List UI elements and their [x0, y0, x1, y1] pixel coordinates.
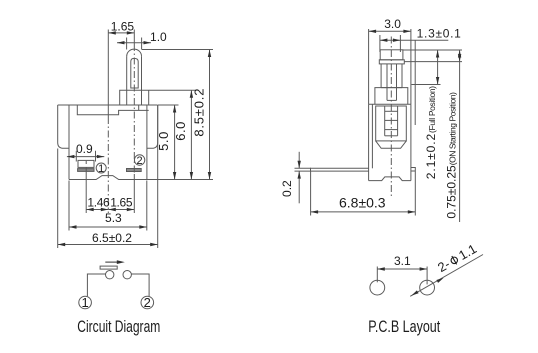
side stem ladder [376, 106, 407, 141]
svg-text:1.3±0.1: 1.3±0.1 [417, 26, 462, 40]
svg-text:1: 1 [81, 295, 88, 310]
svg-text:5.0: 5.0 [156, 131, 171, 151]
svg-text:8.5±0.2: 8.5±0.2 [192, 88, 207, 137]
front body top recess step [77, 105, 148, 115]
svg-text:2-: 2- [435, 256, 453, 275]
leader 2-dia 1.1 [410, 255, 483, 297]
side view body outline [369, 103, 411, 105]
svg-text:Circuit Diagram: Circuit Diagram [77, 318, 160, 336]
front stem collar [120, 90, 149, 105]
svg-text:1.65: 1.65 [111, 20, 135, 34]
dimension 0.75 on starting position [404, 61, 462, 63]
svg-text:6.0: 6.0 [173, 121, 188, 141]
svg-text:6.8±0.3: 6.8±0.3 [339, 195, 386, 211]
circuit contact circle left [106, 271, 114, 279]
svg-text:0.75±0.25(ON Starting Position: 0.75±0.25(ON Starting Position) [445, 92, 459, 219]
svg-text:2: 2 [137, 155, 143, 167]
svg-text:1: 1 [98, 163, 104, 175]
svg-text:1.65: 1.65 [110, 196, 133, 210]
terminal 2 pin [127, 169, 142, 172]
side stem taper [376, 141, 407, 148]
front plunger dome [127, 49, 142, 56]
svg-text:5.3: 5.3 [105, 211, 122, 225]
terminal circle 2 of circuit [141, 296, 154, 309]
terminal 1 centerline [85, 161, 87, 164]
circuit actuation arrow [105, 261, 121, 263]
wire from right contact to terminal 2 [131, 274, 149, 296]
front body bottom edge with center notch [69, 176, 213, 180]
svg-text:0.9: 0.9 [76, 142, 93, 156]
svg-text:1.46: 1.46 [87, 196, 110, 210]
pcb hole 2 [420, 280, 435, 295]
side terminal pin left [311, 168, 369, 171]
front plunger inner rib [131, 58, 138, 88]
side plunger shaft [380, 64, 382, 88]
svg-text:3.0: 3.0 [384, 17, 401, 31]
circuit contact circle right [123, 271, 131, 279]
front body centerline [107, 30, 109, 118]
svg-text:0.2: 0.2 [280, 180, 294, 197]
side terminal stub right [411, 168, 415, 172]
circuit movable contact bar [100, 266, 117, 269]
dimension 2.1 full position [403, 49, 462, 51]
side view centerline [390, 37, 392, 197]
svg-text:2.1±0.2(Full Position): 2.1±0.2(Full Position) [424, 86, 438, 179]
svg-text:6.5±0.2: 6.5±0.2 [92, 231, 132, 245]
side plunger flange band [379, 60, 404, 64]
terminal circle 1 of circuit [79, 296, 92, 309]
svg-text:P.C.B Layout: P.C.B Layout [368, 318, 440, 336]
wire from contact bar to terminal 1 [87, 274, 105, 296]
front plunger centerline [133, 30, 135, 45]
svg-text:1.0: 1.0 [150, 30, 167, 44]
svg-text:2: 2 [144, 295, 151, 310]
side body left inner line [371, 104, 373, 168]
side plunger cap [380, 50, 403, 60]
circled number 1 on front view [96, 163, 106, 173]
terminal 1 pin [78, 169, 94, 172]
circled number 2 on front view [134, 155, 144, 165]
side collar [375, 88, 408, 105]
svg-text:3.1: 3.1 [394, 254, 411, 268]
front view body outline [58, 104, 158, 106]
pcb hole 1 [370, 280, 385, 295]
svg-text:1.1: 1.1 [456, 241, 479, 263]
side body bottom edge with notch [369, 177, 411, 181]
front terminal 1 window [78, 160, 94, 167]
front plunger shaft [126, 56, 128, 90]
